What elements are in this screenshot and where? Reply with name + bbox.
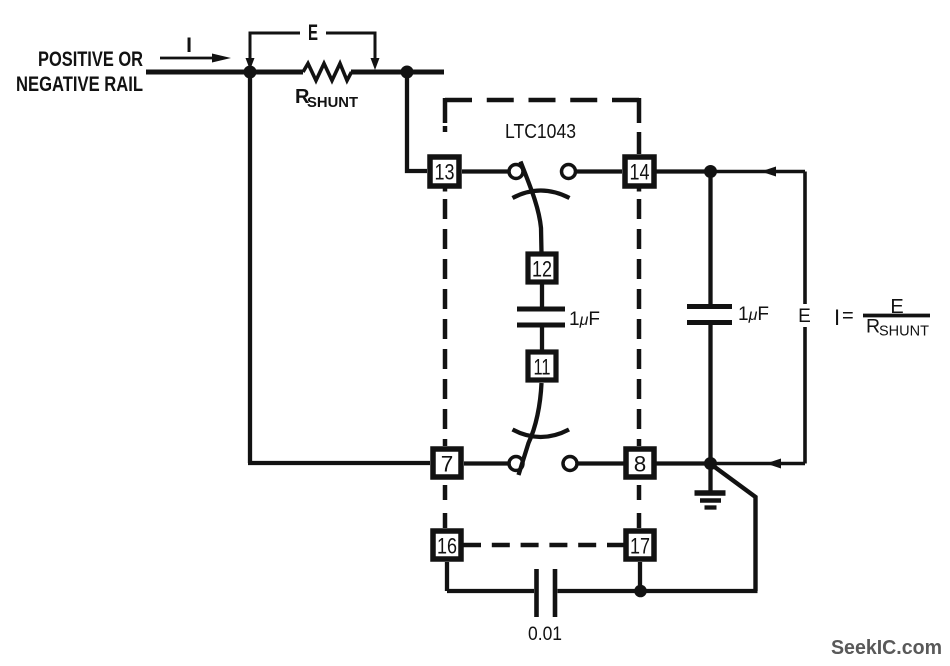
- junction node at pin 17 bottom: [634, 585, 647, 598]
- pin 12: [528, 254, 556, 282]
- wire: left loop vertical: [248, 72, 252, 463]
- junction node A (pin 14 / C2 top): [704, 165, 717, 178]
- svg-text:=: =: [842, 305, 854, 327]
- wire: node B diagonal to bottom return: [712, 465, 756, 591]
- wire: top rail right segment: [351, 70, 444, 75]
- switch S2 contact circle right: [563, 457, 577, 471]
- label R_SHUNT: [295, 86, 358, 111]
- formula I = E / R_SHUNT: [834, 296, 930, 340]
- node: positive/negative rail label: [16, 48, 143, 96]
- svg-text:1μF: 1μF: [738, 304, 769, 325]
- svg-text:8: 8: [634, 452, 647, 477]
- svg-text:7: 7: [441, 452, 454, 477]
- pin 11: [528, 352, 556, 380]
- LTC1043 dashed outline bottom edge: [463, 543, 625, 548]
- svg-text:17: 17: [630, 534, 650, 559]
- wire: switch to pin 14: [576, 169, 622, 173]
- svg-text:I: I: [834, 305, 840, 330]
- wire: pin 17 down to bottom return: [638, 562, 642, 591]
- svg-text:16: 16: [437, 534, 457, 559]
- wire: pin 13 to switch contact: [462, 169, 508, 173]
- svg-text:12: 12: [532, 257, 552, 282]
- switch S2 contact circle left: [509, 457, 523, 471]
- wire: right E line vertical upper: [803, 172, 807, 305]
- svg-text:SHUNT: SHUNT: [879, 324, 929, 340]
- wire: node A down to capacitor C2: [708, 172, 712, 305]
- capacitor C3 plates (0.01): [537, 569, 556, 617]
- switch S1 contact circle right: [562, 165, 576, 179]
- pin 13: [430, 157, 459, 186]
- svg-text:I: I: [186, 34, 192, 57]
- LTC1043 dashed outline left edge: [443, 98, 448, 528]
- wire: right corner to node B with arrow: [714, 459, 805, 469]
- switch S2 wiper arm: [519, 383, 542, 475]
- wire: switch to pin 8: [578, 461, 625, 465]
- wire: pin 16 down to bottom return: [445, 562, 449, 591]
- wire: capacitor C2 to node B: [708, 324, 712, 464]
- LTC1043 dashed outline top edge: [445, 98, 639, 103]
- svg-text:SeekIC.com: SeekIC.com: [831, 637, 942, 659]
- pin 16: [433, 531, 461, 559]
- svg-text:LTC1043: LTC1043: [505, 121, 576, 143]
- switch S2 motion arc: [513, 430, 570, 438]
- junction node at rail left: [244, 66, 257, 79]
- resistor R_SHUNT: [303, 64, 352, 81]
- ground symbol: [695, 464, 726, 508]
- pin 17: [626, 531, 654, 559]
- svg-text:14: 14: [630, 160, 650, 185]
- svg-text:13: 13: [435, 160, 455, 185]
- current arrow I: [160, 34, 231, 63]
- svg-text:0.01: 0.01: [528, 624, 562, 645]
- wire: pin 14 to output node: [655, 169, 706, 173]
- junction node B (pin 8 / ground): [704, 457, 717, 470]
- capacitor C2 1uF plates: [687, 307, 732, 323]
- wire: pin 8 to node B: [656, 461, 706, 465]
- switch S1 contact circle left: [509, 165, 523, 179]
- svg-text:NEGATIVE RAIL: NEGATIVE RAIL: [16, 73, 143, 96]
- svg-text:1μF: 1μF: [569, 309, 600, 330]
- pin 8: [626, 449, 654, 477]
- wire: capacitor C1 to pin 11: [540, 327, 544, 350]
- svg-text:E: E: [308, 20, 318, 45]
- E measurement bracket over R_SHUNT: [246, 20, 380, 70]
- wire: bottom return right segment: [558, 589, 758, 593]
- wire: left loop bottom horizontal to pin 7: [248, 461, 430, 465]
- svg-text:SHUNT: SHUNT: [307, 94, 358, 111]
- capacitor C1 1uF plates: [517, 309, 565, 325]
- junction node at rail right: [401, 66, 414, 79]
- pin 7: [433, 449, 461, 477]
- wire: node A to right corner with arrow: [710, 167, 805, 177]
- wire: bottom return left segment: [447, 589, 534, 593]
- wire: pin 12 to capacitor C1: [540, 284, 544, 307]
- svg-text:POSITIVE OR: POSITIVE OR: [38, 48, 143, 71]
- svg-text:11: 11: [534, 355, 551, 380]
- switch S1 motion arc: [513, 191, 570, 199]
- wire: top rail left segment: [146, 70, 303, 75]
- svg-text:E: E: [798, 306, 811, 327]
- wire: right E line vertical lower: [803, 327, 807, 464]
- svg-text:R: R: [866, 316, 880, 338]
- LTC1043 dashed outline right edge: [637, 98, 642, 528]
- wire: pin 7 to switch contact: [464, 461, 508, 465]
- wire: rail node down to pin 13: [407, 72, 427, 171]
- pin 14: [625, 157, 654, 186]
- switch S1 wiper arm: [521, 162, 542, 254]
- svg-text:E: E: [890, 296, 903, 318]
